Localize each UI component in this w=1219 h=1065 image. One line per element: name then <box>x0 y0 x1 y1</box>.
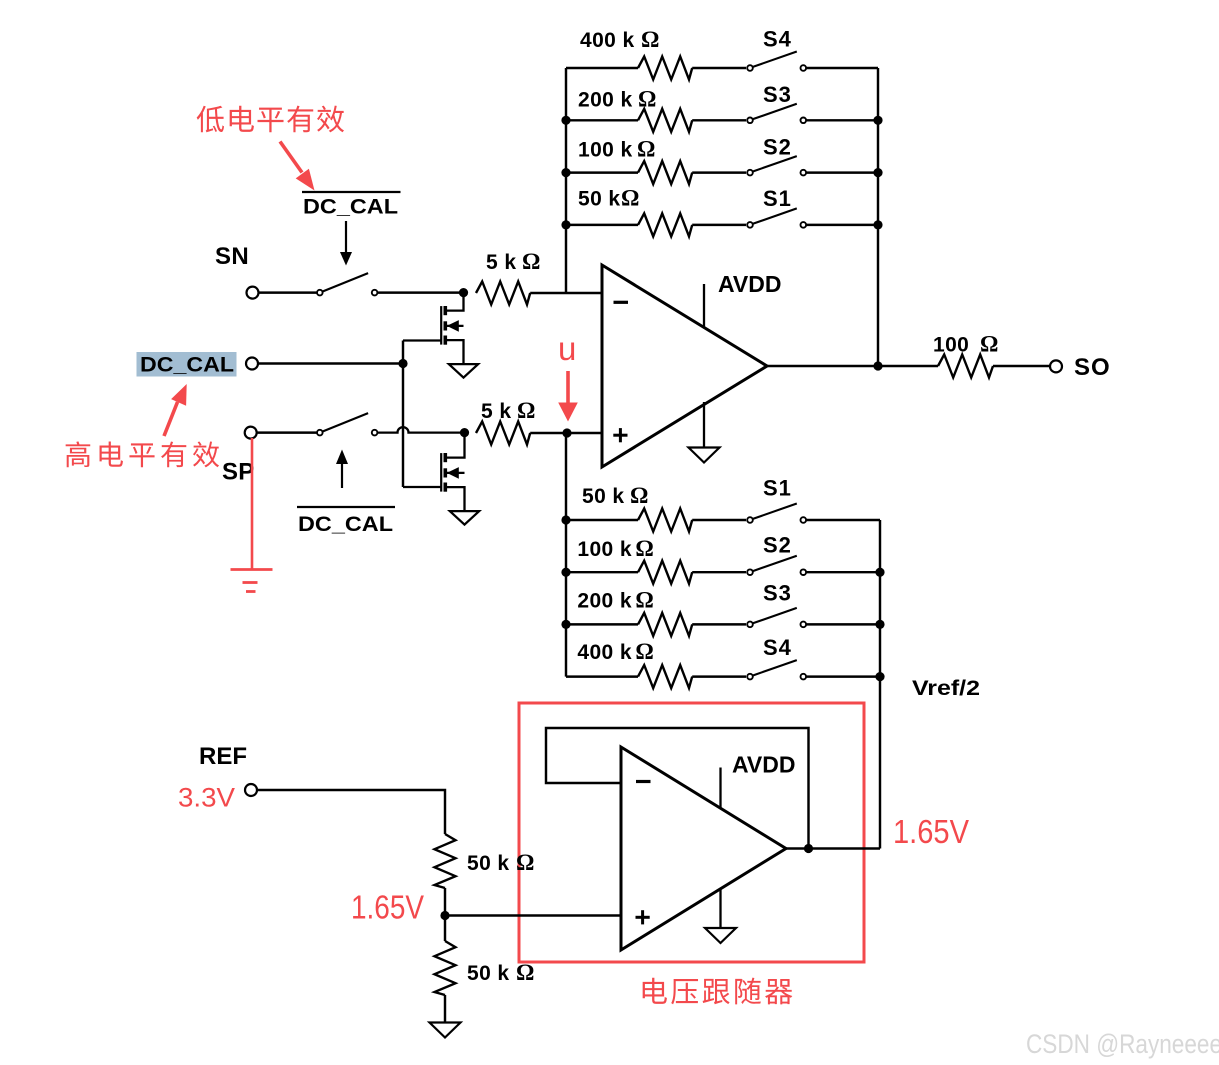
wire row 400 k&#937; bottom bank <box>566 675 638 677</box>
port DC_CAL <box>246 358 258 370</box>
svg-text:100: 100 <box>933 334 969 357</box>
svg-text:Ω: Ω <box>516 960 534 985</box>
svg-text:200 k: 200 k <box>577 590 632 613</box>
annotation box voltage follower (red) <box>519 703 864 962</box>
wire right bus of top feedback bank down to output node <box>877 68 879 366</box>
svg-text:S1: S1 <box>763 476 792 501</box>
ground pin of U2 <box>719 888 721 928</box>
port SP <box>245 427 257 439</box>
wire gate bus vertical <box>402 341 404 488</box>
net label DC_CAL (active-low, above SN switch) <box>302 192 401 219</box>
junction right bus <box>873 220 882 229</box>
svg-text:50 k: 50 k <box>582 485 624 508</box>
junction node A (drain/switch/resistor) <box>459 288 468 297</box>
svg-text:S4: S4 <box>763 27 792 52</box>
wire 5k to op-amp inverting input <box>530 292 602 294</box>
svg-text:SP: SP <box>222 459 254 486</box>
switch SP (DC_CAL controlled, lower) <box>317 413 377 435</box>
ground symbol divider <box>430 1023 461 1038</box>
svg-text:Ω: Ω <box>635 588 653 613</box>
wire switch to right bus <box>806 675 880 677</box>
svg-text:Ω: Ω <box>635 536 653 561</box>
wire right bus of bottom bank (Vref/2 net) <box>879 520 881 849</box>
wire switch to right bus <box>806 171 878 173</box>
wire U2 output to Vref/2 bus <box>786 847 880 849</box>
wire left bus of bottom gain bank <box>565 433 567 677</box>
svg-text:Ω: Ω <box>522 249 540 274</box>
wire row 200 k&#937; top bank <box>566 119 638 121</box>
svg-text:5 k: 5 k <box>481 400 511 423</box>
wire SP port to switch <box>256 431 318 433</box>
junction right bus <box>873 168 882 177</box>
switch S1 <box>747 208 806 227</box>
ground at Q2 source <box>450 511 479 524</box>
junction left bus <box>561 620 570 629</box>
svg-text:50 k: 50 k <box>467 852 509 875</box>
port REF <box>245 784 257 796</box>
svg-text:SO: SO <box>1074 354 1111 381</box>
ground symbol U1 <box>689 448 720 463</box>
annotation text active-high (red) <box>66 441 219 467</box>
svg-text:1.65V: 1.65V <box>893 813 969 850</box>
junction left bus <box>561 220 570 229</box>
annotation text active-low (red) <box>197 106 344 133</box>
svg-text:200 k: 200 k <box>578 89 633 112</box>
wire U1 output to SO <box>767 365 938 367</box>
switch S4 <box>747 660 806 679</box>
junction feedback/output <box>804 844 813 853</box>
red ground at SP (signal grounded) <box>231 438 273 592</box>
wire switch to node A <box>378 291 464 293</box>
junction node u at left bus <box>562 428 571 437</box>
wire switch to right bus <box>806 67 878 69</box>
svg-text:Ω: Ω <box>641 27 659 52</box>
wire feedback loop U2 output to inverting input <box>546 728 809 849</box>
wire switch to right bus <box>806 571 880 573</box>
svg-text:S2: S2 <box>763 135 792 160</box>
svg-text:DC_CAL: DC_CAL <box>303 196 398 219</box>
resistor 200 k&#937; (bottom bank) <box>638 613 692 636</box>
wire mid node to U2 non-inverting input <box>445 914 621 916</box>
power pin AVDD of U2 <box>719 768 721 810</box>
junction right bus <box>873 116 882 125</box>
svg-text:100 k: 100 k <box>577 538 632 561</box>
wire left bus of top feedback resistor bank <box>565 68 567 293</box>
svg-text:1.65V: 1.65V <box>351 889 424 926</box>
resistor 100 k&#937; (bottom bank) <box>638 561 692 584</box>
wire 100ohm to SO port <box>993 365 1050 367</box>
svg-text:Ω: Ω <box>630 483 648 508</box>
wire row 400 k&#937; top bank <box>566 67 638 69</box>
svg-text:DC_CAL: DC_CAL <box>298 513 393 536</box>
resistor 400 k&#937; (bottom bank) <box>638 665 692 688</box>
resistor 50 k&#937; lower divider <box>435 941 456 995</box>
transistor Q1 (NMOS) <box>403 293 464 365</box>
wire 5k to op-amp non-inverting input, node u <box>530 432 602 434</box>
switch S3 <box>747 608 806 627</box>
junction node B (drain/switch/resistor) <box>460 428 469 437</box>
switch S4 <box>747 52 806 71</box>
svg-text:S2: S2 <box>763 533 792 558</box>
arrow from DC_CAL label up to SP switch <box>336 450 348 489</box>
wire row 50 k&#937; top bank <box>566 224 638 226</box>
svg-text:SN: SN <box>215 243 249 270</box>
resistor 400 k&#937; (top bank) <box>638 57 692 80</box>
junction right bus <box>875 620 884 629</box>
annotation arrow to DC_CAL (red) <box>280 142 315 191</box>
resistor 100 k&#937; (top bank) <box>638 161 692 184</box>
svg-text:Ω: Ω <box>516 850 534 875</box>
junction right bus <box>875 568 884 577</box>
svg-text:3.3V: 3.3V <box>178 783 235 813</box>
transistor Q2 (NMOS) <box>403 433 465 512</box>
junction left bus <box>561 116 570 125</box>
junction gate bus <box>398 359 407 368</box>
svg-text:Ω: Ω <box>980 332 998 357</box>
port SN <box>247 287 259 299</box>
svg-text:5 k: 5 k <box>486 251 516 274</box>
svg-text:S3: S3 <box>763 581 792 606</box>
junction output / feedback bus <box>873 361 882 370</box>
svg-text:400 k: 400 k <box>580 29 635 52</box>
svg-text:Ω: Ω <box>635 639 653 664</box>
svg-text:CSDN @Rayneeee: CSDN @Rayneeee <box>1026 1029 1219 1059</box>
resistor 50 k&#937; (top bank) <box>638 213 692 236</box>
svg-text:DC_CAL: DC_CAL <box>140 354 234 377</box>
resistor 5 k&#937; (inverting input) <box>476 282 530 305</box>
wire switch to right bus <box>806 623 880 625</box>
wire row 100 k&#937; bottom bank <box>566 571 638 573</box>
op-amp U1 <box>602 265 767 467</box>
ground symbol U2 <box>705 928 736 943</box>
junction left bus <box>561 515 570 524</box>
wire divider middle <box>444 888 446 941</box>
power pin AVDD of U1 <box>703 284 705 327</box>
wire DC_CAL to gate bus <box>258 362 403 364</box>
resistor 50 k&#937; upper divider <box>435 834 456 888</box>
annotation arrow to DC_CAL highlighted (red) <box>164 384 187 436</box>
svg-text:Ω: Ω <box>637 137 655 162</box>
svg-text:S3: S3 <box>763 82 792 107</box>
svg-text:AVDD: AVDD <box>732 752 795 778</box>
annotation text voltage follower (red) <box>643 978 793 1005</box>
svg-text:Vref/2: Vref/2 <box>912 677 980 700</box>
switch S2 <box>747 156 806 175</box>
junction divider mid node 1.65V <box>440 911 449 920</box>
switch SN (DC_CAL controlled, upper) <box>317 273 377 295</box>
svg-text:S1: S1 <box>763 186 792 211</box>
switch S2 <box>747 556 806 575</box>
wire REF to divider top <box>257 790 445 834</box>
wire switch to node B with hop over gate bus <box>378 427 465 433</box>
resistor 200 k&#937; (top bank) <box>638 109 692 132</box>
wire switch to right bus <box>806 119 878 121</box>
resistor 100 &#937; output <box>938 355 993 378</box>
switch S1 <box>747 504 806 523</box>
op-amp U2 (voltage follower) <box>621 747 786 950</box>
arrow from DC_CAL label down to SN switch <box>340 221 352 266</box>
wire divider bottom to ground <box>444 995 446 1023</box>
wire SN port to switch <box>258 291 318 293</box>
wire row 50 k&#937; bottom bank <box>566 519 638 521</box>
ground pin of U1 <box>703 402 705 448</box>
wire row 200 k&#937; bottom bank <box>566 623 638 625</box>
port SO <box>1050 360 1062 372</box>
svg-text:100 k: 100 k <box>578 139 633 162</box>
svg-text:u: u <box>558 330 576 367</box>
svg-text:50 k: 50 k <box>467 962 509 985</box>
svg-text:400 k: 400 k <box>577 641 632 664</box>
resistor 5 k&#937; (non-inverting input) <box>476 422 530 445</box>
wire row 100 k&#937; top bank <box>566 171 638 173</box>
svg-text:Ω: Ω <box>621 186 639 211</box>
highlight box DC_CAL net label <box>137 352 237 377</box>
wire switch to right bus <box>806 519 880 521</box>
ground at Q1 source <box>449 364 478 378</box>
svg-text:Ω: Ω <box>638 87 656 112</box>
switch S3 <box>747 104 806 123</box>
junction left bus <box>561 568 570 577</box>
net label DC_CAL (active-low, below SP switch) <box>297 507 395 536</box>
wire switch to right bus <box>806 224 878 226</box>
junction left bus <box>561 168 570 177</box>
resistor 50 k&#937; (bottom bank) <box>638 509 692 532</box>
svg-text:AVDD: AVDD <box>718 271 781 297</box>
svg-text:50 k: 50 k <box>578 188 620 211</box>
svg-text:REF: REF <box>199 743 247 770</box>
svg-text:Ω: Ω <box>517 398 535 423</box>
svg-text:S4: S4 <box>763 635 792 660</box>
junction right bus <box>875 672 884 681</box>
annotation arrow u down to non-inverting node (red) <box>558 371 578 422</box>
